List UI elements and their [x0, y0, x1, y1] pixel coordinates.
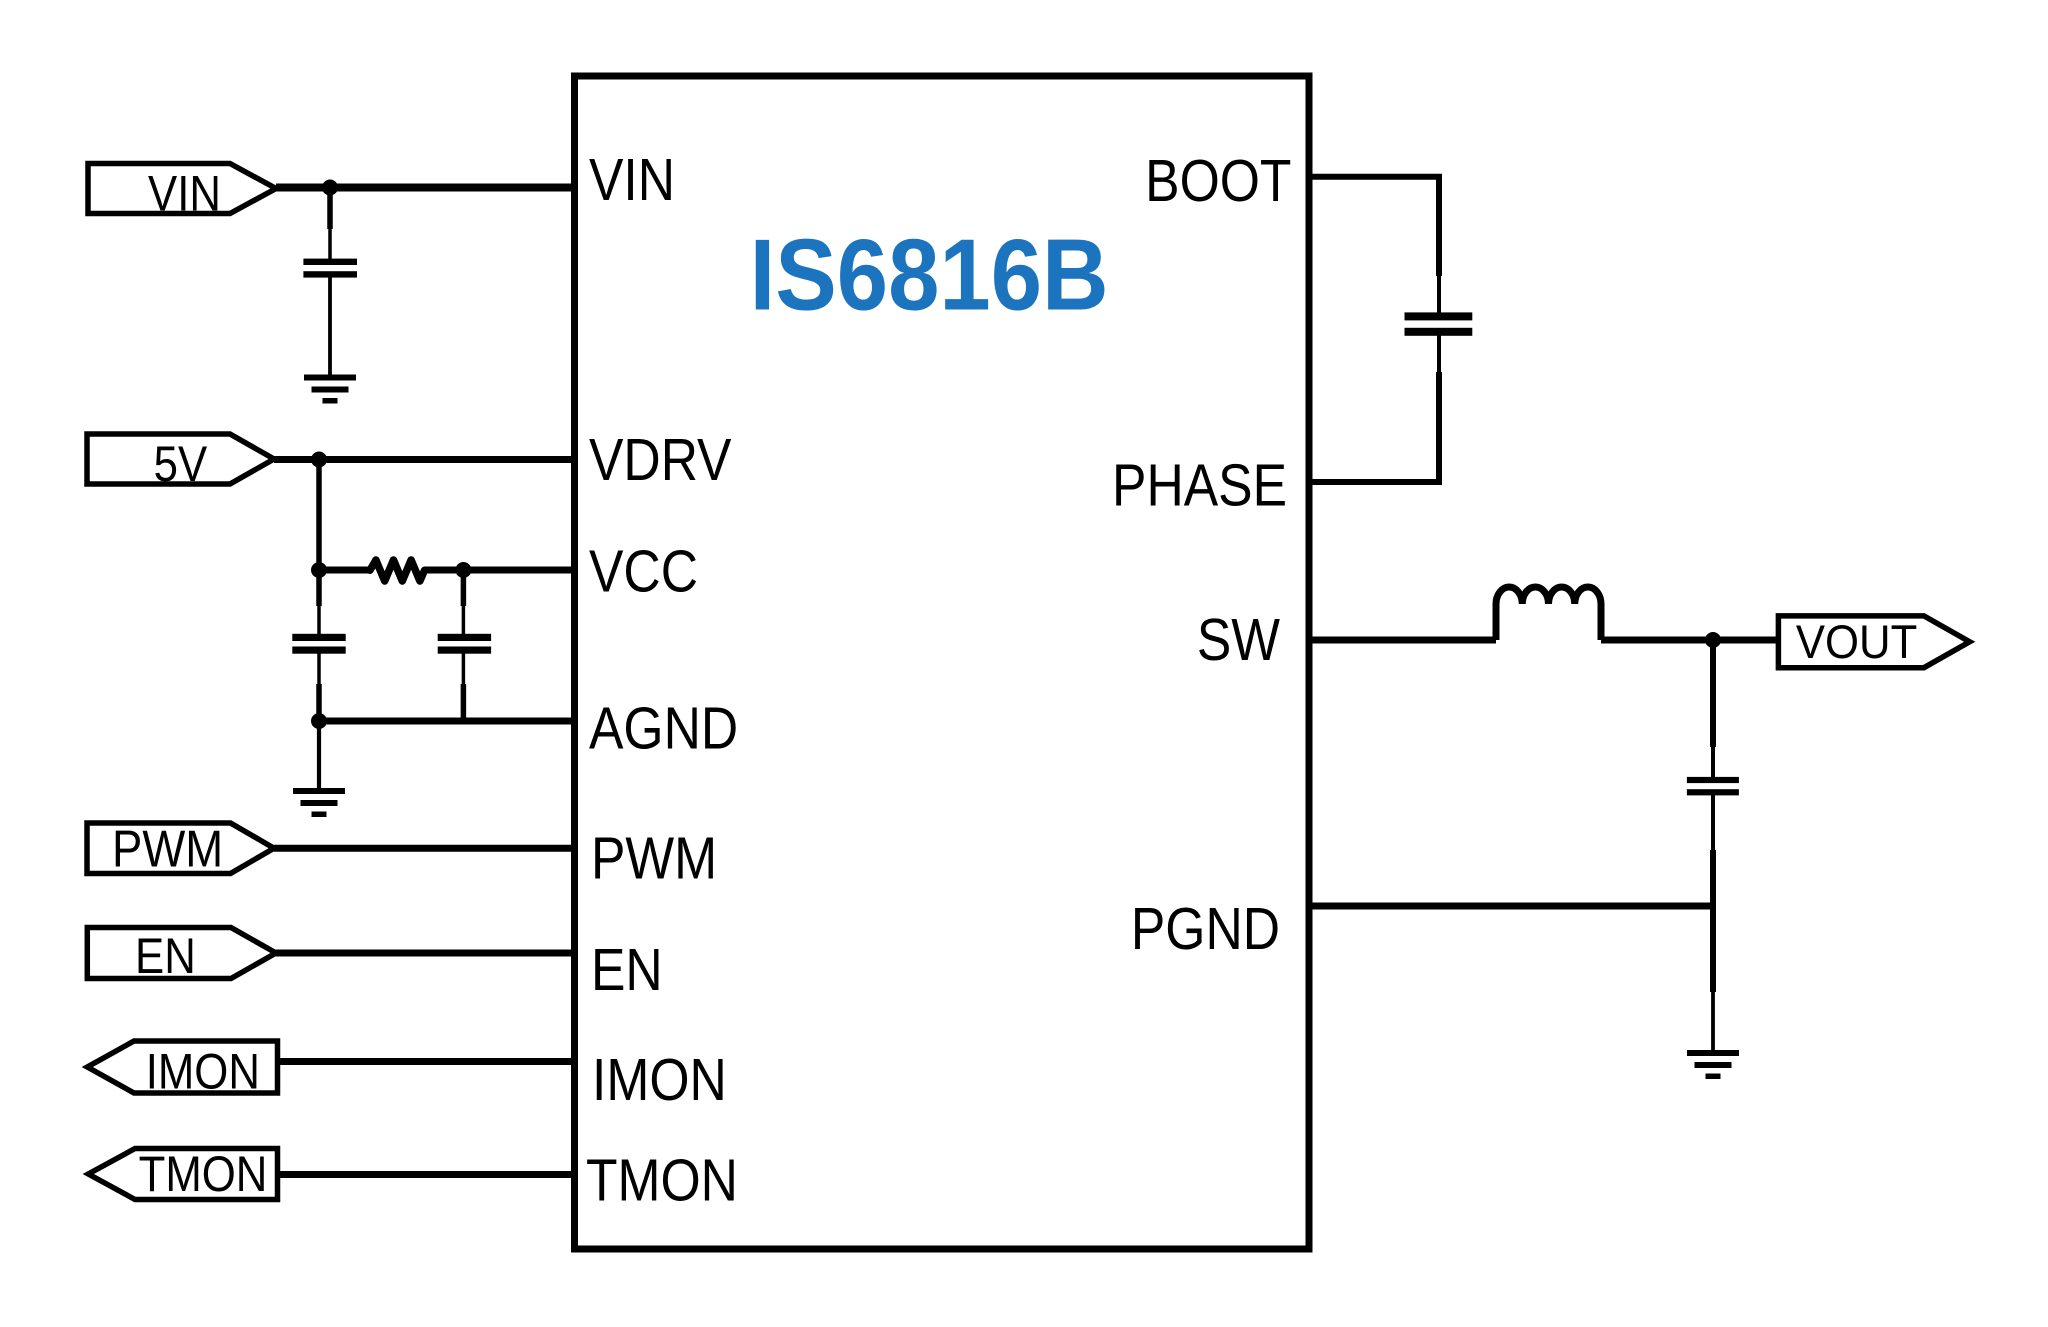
svg-text:IS6816B: IS6816B	[750, 217, 1109, 331]
svg-text:AGND: AGND	[589, 695, 738, 761]
wire	[278, 1171, 575, 1178]
wire	[424, 567, 575, 574]
svg-text:SW: SW	[1197, 607, 1281, 673]
port flag 5V	[87, 434, 274, 484]
wire	[1437, 334, 1441, 372]
capacitor C1	[303, 259, 357, 278]
pin label BOOT	[1145, 148, 1291, 214]
wire	[1711, 793, 1715, 850]
flag label EN	[135, 927, 196, 983]
port flag PWM	[87, 823, 274, 874]
port flag VIN	[88, 164, 276, 214]
node VCC left junction	[311, 562, 327, 578]
wire	[316, 460, 322, 571]
wire	[1710, 850, 1716, 992]
capacitor C3	[438, 634, 491, 654]
svg-text:PWM: PWM	[591, 825, 717, 891]
wire	[1601, 637, 1778, 644]
resistor R1	[370, 560, 425, 581]
node VCC right junction	[455, 562, 471, 578]
node VIN junction	[322, 180, 338, 196]
ground	[304, 375, 356, 404]
svg-text:PWM: PWM	[112, 821, 223, 878]
inductor L1	[1496, 587, 1601, 640]
wire	[1710, 640, 1716, 747]
wire	[317, 653, 321, 684]
wire	[461, 570, 467, 606]
wire	[328, 276, 332, 377]
svg-text:VIN: VIN	[589, 147, 675, 213]
pin label TMON	[586, 1147, 738, 1213]
flag label VIN	[148, 165, 221, 221]
wire	[316, 570, 322, 606]
flag label 5V	[154, 435, 208, 491]
svg-text:5V: 5V	[154, 435, 208, 491]
svg-text:PHASE: PHASE	[1112, 452, 1287, 518]
node VOUT junction	[1705, 632, 1721, 648]
pin label PHASE	[1112, 452, 1287, 518]
pin label VDRV	[589, 427, 731, 493]
wire	[1309, 903, 1713, 910]
flag label TMON	[139, 1145, 268, 1201]
svg-text:BOOT: BOOT	[1145, 148, 1291, 214]
wire	[1437, 276, 1441, 314]
svg-text:TMON: TMON	[139, 1145, 268, 1201]
wire	[461, 684, 467, 721]
flag label IMON	[146, 1043, 260, 1099]
svg-text:EN: EN	[591, 937, 663, 1003]
svg-text:VDRV: VDRV	[589, 427, 731, 493]
wire	[276, 184, 575, 192]
svg-text:IMON: IMON	[146, 1043, 260, 1099]
flag label PWM	[112, 821, 223, 878]
pin label EN	[591, 937, 663, 1003]
wire	[1711, 747, 1715, 779]
pin label PGND	[1131, 896, 1280, 962]
wire	[278, 1058, 575, 1065]
pin label IMON	[592, 1047, 727, 1113]
svg-text:EN: EN	[135, 927, 196, 983]
wire	[316, 684, 322, 721]
ground	[293, 788, 345, 817]
wire	[317, 606, 321, 635]
IC U1 IS6816B	[575, 76, 1310, 1249]
port flag VOUT	[1778, 616, 1969, 668]
wire	[1309, 637, 1496, 644]
wire	[274, 456, 575, 463]
capacitor C2	[1405, 312, 1473, 335]
wire	[327, 188, 333, 230]
svg-text:TMON: TMON	[586, 1147, 738, 1213]
capacitor C4	[1687, 777, 1739, 796]
pin label AGND	[589, 695, 738, 761]
ground	[1687, 1050, 1739, 1079]
node AGND junction	[311, 713, 327, 729]
svg-text:VCC: VCC	[589, 538, 698, 604]
capacitor C5	[292, 634, 345, 654]
wire	[462, 606, 466, 635]
wire	[319, 718, 575, 725]
wire	[319, 567, 371, 574]
pin label PWM	[591, 825, 717, 891]
wire	[274, 845, 575, 852]
svg-text:VIN: VIN	[148, 165, 221, 221]
flag label VOUT	[1796, 616, 1917, 669]
port flag IMON	[87, 1041, 277, 1093]
port flag TMON	[88, 1149, 277, 1200]
wire	[1309, 372, 1439, 482]
port flag EN	[87, 928, 276, 979]
label IS6816B	[750, 217, 1109, 331]
node 5V junction	[311, 452, 327, 468]
wire	[462, 653, 466, 684]
pin label VIN	[589, 147, 675, 213]
svg-text:PGND: PGND	[1131, 896, 1280, 962]
svg-text:VOUT: VOUT	[1796, 616, 1917, 669]
svg-text:IMON: IMON	[592, 1047, 727, 1113]
wire	[317, 721, 321, 791]
wire	[328, 229, 332, 260]
pin label VCC	[589, 538, 698, 604]
wire	[1711, 992, 1715, 1052]
wire	[1309, 177, 1439, 276]
pin label SW	[1197, 607, 1281, 673]
wire	[276, 950, 575, 957]
